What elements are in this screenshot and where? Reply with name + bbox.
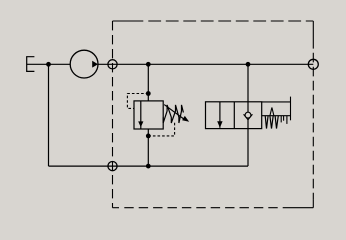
enclosure left edge <box>112 21 114 208</box>
valve V2 spring zigzag <box>265 116 278 129</box>
wire left vertical branch <box>48 64 50 166</box>
enclosure right edge dashed <box>312 53 314 200</box>
valve V2 spring right bar <box>290 97 292 121</box>
valve V2 body <box>206 102 262 129</box>
relief valve V1 pilot line top <box>127 94 148 109</box>
wire bottom return <box>49 165 249 167</box>
relief valve V1 flow arrow shaft <box>140 101 142 129</box>
valve V2 spring lower rail <box>262 115 291 117</box>
wire valve V2 bottom to return <box>247 129 249 167</box>
relief valve V1 adjustment arrowhead <box>182 116 189 122</box>
wire relief valve top <box>147 64 149 101</box>
junction node B <box>146 62 151 67</box>
valve V2 spring spike <box>270 108 274 116</box>
valve V2 check outlet wire <box>247 120 249 129</box>
port circle right <box>308 59 318 69</box>
valve V2 spring tick 2 <box>283 116 285 121</box>
port circle left bottom <box>108 162 117 171</box>
junction node C <box>246 62 251 67</box>
enclosure bottom edge dashed <box>124 207 283 209</box>
relief valve V1 flow arrowhead <box>138 121 143 127</box>
enclosure top edge solid start <box>113 20 144 22</box>
enclosure right edge solid end <box>312 200 314 208</box>
wire tank to pump <box>27 63 71 65</box>
junction pilot tee node D <box>146 91 151 96</box>
valve V2 spring tick 3 <box>286 116 288 124</box>
valve V2 check seat <box>244 114 253 120</box>
valve V2 left position arrowhead <box>217 121 222 128</box>
wire relief valve bottom <box>147 129 149 166</box>
relief valve V1 pilot line bottom <box>148 121 174 136</box>
tank T1 <box>27 57 35 72</box>
junction node A <box>46 62 51 67</box>
relief valve V1 adjustment arrow shaft <box>164 105 184 120</box>
valve V2 left position arrow shaft <box>219 102 221 128</box>
relief valve V1 body <box>134 101 163 129</box>
wire pump to right port <box>98 63 314 65</box>
valve V2 position divider <box>233 102 235 129</box>
junction node F <box>146 164 151 169</box>
junction pilot tee node E <box>146 134 151 139</box>
relief valve V1 spring <box>163 105 183 123</box>
enclosure bottom edge solid end <box>284 207 314 209</box>
pump P1 circle <box>70 50 98 78</box>
valve V2 spring top rail <box>262 101 291 103</box>
pump P1 flow triangle <box>92 61 98 68</box>
valve V2 right position wire <box>247 102 249 115</box>
valve V2 check ball <box>245 112 251 118</box>
port circle left top <box>108 60 117 69</box>
valve V2 spring tick 1 <box>280 116 282 123</box>
wire valve V2 top <box>247 64 249 102</box>
enclosure right edge solid start <box>312 21 314 49</box>
enclosure top edge dashed <box>148 20 313 22</box>
enclosure bottom edge corner piece <box>113 207 120 209</box>
